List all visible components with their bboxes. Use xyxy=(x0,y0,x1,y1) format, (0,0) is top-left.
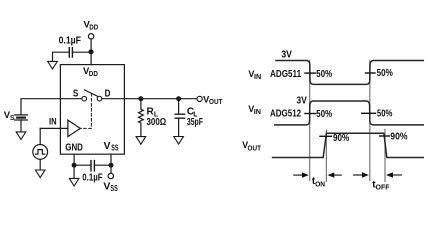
svg-text:50%: 50% xyxy=(316,109,332,120)
wire D pin to VOUT rail xyxy=(102,98,197,100)
capacitor C1 0.1uF (VDD decoupling) plates xyxy=(69,48,72,57)
pulse generator V1 wire to IN xyxy=(39,128,41,144)
svg-text:OUT: OUT xyxy=(248,145,262,152)
tOFF dimension arrow left xyxy=(354,174,362,176)
wire VS source rail into pin S xyxy=(21,99,82,115)
junction dot on VDD wire xyxy=(88,49,93,54)
node VSS terminal circle xyxy=(108,173,113,178)
svg-text:ADG512: ADG512 xyxy=(270,109,301,120)
svg-text:V: V xyxy=(104,140,111,152)
DUT box ADG511/ADG512 outline xyxy=(60,65,124,155)
svg-text:OUT: OUT xyxy=(209,99,223,106)
extension line at VOUT falling edge xyxy=(384,129,386,181)
node VDD supply terminal circle xyxy=(88,34,93,39)
ground symbol (top left, for C1) xyxy=(48,61,58,69)
junction dot at CL xyxy=(176,96,181,101)
source VS battery symbol xyxy=(15,115,28,120)
svg-text:IN: IN xyxy=(49,117,57,127)
svg-text:IN: IN xyxy=(254,109,261,116)
extension line at VOUT rising edge xyxy=(325,130,327,181)
pulse generator waveform glyph xyxy=(36,150,45,155)
50% tick on ADG511 rising edge xyxy=(366,72,376,74)
resistor RL zigzag xyxy=(139,101,144,137)
wire GND pin down xyxy=(73,154,75,178)
switch S1 lever xyxy=(84,90,98,97)
svg-text:ADG511: ADG511 xyxy=(270,69,301,80)
svg-text:OFF: OFF xyxy=(376,185,391,192)
50% tick on ADG511 falling edge xyxy=(305,72,316,74)
extension line at switching edge t1 xyxy=(309,61,311,181)
wire pulse generator to ground xyxy=(39,159,41,170)
ground symbol (below RL) xyxy=(136,137,146,145)
svg-text:GND: GND xyxy=(65,141,83,153)
wire IN pin to driver xyxy=(40,127,68,129)
svg-text:SS: SS xyxy=(110,184,118,193)
90% tick on VOUT falling edge xyxy=(380,135,390,137)
svg-text:DD: DD xyxy=(89,71,98,78)
svg-text:90%: 90% xyxy=(390,132,407,143)
50% tick on ADG512 falling edge xyxy=(362,112,376,114)
svg-text:3V: 3V xyxy=(281,49,292,60)
svg-text:50%: 50% xyxy=(316,69,332,80)
svg-text:3V: 3V xyxy=(296,95,307,106)
wire VS to ground xyxy=(20,120,22,132)
svg-text:ON: ON xyxy=(315,181,325,188)
svg-text:IN: IN xyxy=(254,74,261,81)
wire junction to decoupling cap C1 xyxy=(72,51,91,53)
waveform VIN ADG511 trace xyxy=(276,61,423,85)
ground symbol (below CL) xyxy=(174,137,184,145)
ground symbol (below VS) xyxy=(16,132,26,140)
svg-text:DD: DD xyxy=(89,25,98,32)
svg-text:0.1µF: 0.1µF xyxy=(59,36,81,47)
extension line at switching edge t2 xyxy=(369,61,371,181)
node VOUT terminal circle xyxy=(197,96,202,101)
waveform VOUT trace xyxy=(273,133,424,157)
ground symbol (below pulse generator) xyxy=(35,170,45,178)
tON dimension arrow left xyxy=(294,174,303,176)
junction dot at RL xyxy=(138,96,143,101)
pulse generator V1 xyxy=(33,145,48,160)
svg-text:V: V xyxy=(103,180,110,192)
wire cap C2 to VSS junction xyxy=(94,164,111,166)
tOFF dimension arrow right xyxy=(393,174,402,176)
svg-text:35pF: 35pF xyxy=(187,117,203,128)
svg-text:D: D xyxy=(105,87,111,99)
tON dimension arrow right xyxy=(333,174,341,176)
wire VSS pin down to VSS terminal xyxy=(110,154,112,173)
svg-text:S: S xyxy=(73,88,78,100)
capacitor CL plates xyxy=(175,114,184,118)
waveform VIN ADG512 trace xyxy=(275,101,424,125)
wire VDD terminal to box top xyxy=(90,39,92,65)
dashed control link from switch to driver xyxy=(81,94,92,129)
svg-text:SS: SS xyxy=(111,144,119,153)
svg-text:50%: 50% xyxy=(377,109,393,120)
50% tick on ADG512 rising edge xyxy=(305,113,316,115)
junction dot GND net xyxy=(72,163,77,168)
svg-text:S: S xyxy=(10,115,15,122)
capacitor C2 0.1uF (VSS decoupling) plates xyxy=(91,161,94,171)
switch S1 contact circles xyxy=(82,96,87,101)
wire GND junction to cap C2 xyxy=(74,164,91,166)
ground symbol (below GND pin) xyxy=(69,178,79,186)
svg-text:90%: 90% xyxy=(333,133,349,144)
wire cap C1 to ground xyxy=(53,52,70,61)
svg-text:300Ω: 300Ω xyxy=(147,117,167,128)
svg-text:50%: 50% xyxy=(377,68,393,79)
svg-text:0.1µF: 0.1µF xyxy=(82,172,102,183)
90% tick on VOUT rising edge xyxy=(320,135,332,137)
driver buffer triangle U1a xyxy=(68,120,80,137)
junction dot VSS net xyxy=(109,163,114,168)
wire CL top xyxy=(178,101,180,114)
wire CL bottom to ground xyxy=(178,118,180,136)
